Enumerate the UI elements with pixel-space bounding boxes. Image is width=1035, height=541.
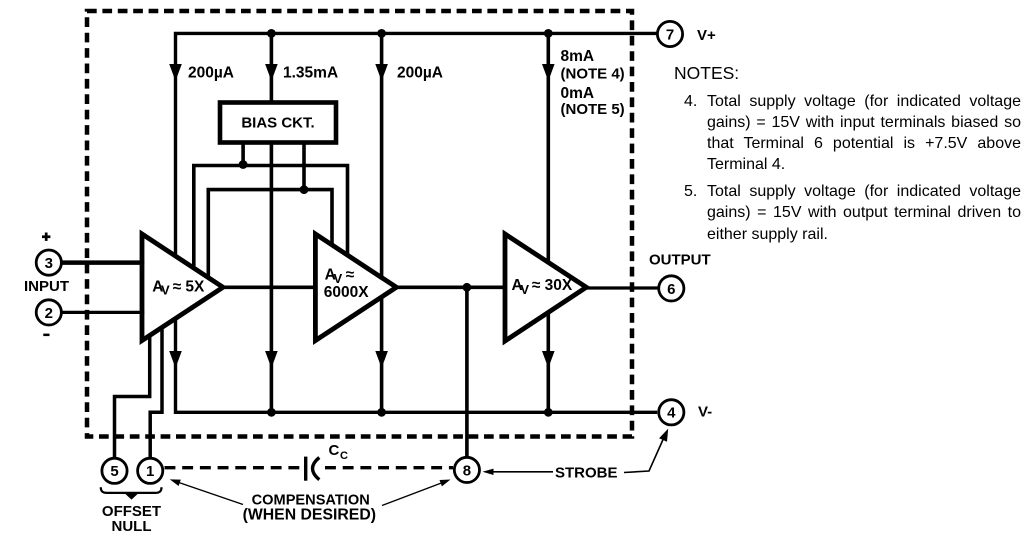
svg-text:NULL: NULL bbox=[112, 518, 152, 535]
wire: second 200uA current line bbox=[380, 33, 384, 412]
label V+ bbox=[697, 27, 716, 44]
wire: bias feedback outer loop to A1 and A2 bbox=[194, 166, 348, 273]
current arrow 1.35mA bottom bbox=[265, 351, 278, 368]
wire: signal A1 output to A2 input bbox=[221, 285, 317, 289]
label STROBE bbox=[555, 465, 618, 482]
op-amp A1 (AV ~ 5X) bbox=[142, 234, 223, 341]
label COMPENSATION (WHEN DESIRED) bbox=[243, 492, 376, 523]
terminal 2 circle bbox=[36, 300, 61, 325]
wire: compensation tap down to terminal 8 bbox=[465, 287, 469, 456]
current arrow 8mA bottom bbox=[542, 351, 555, 368]
wire: signal A2 output to A3 input bbox=[394, 285, 507, 289]
current arrow 8mA top bbox=[542, 64, 555, 81]
svg-text:6: 6 bbox=[667, 281, 675, 298]
label NOTES: bbox=[674, 63, 739, 84]
svg-text:(NOTE 4): (NOTE 4) bbox=[561, 66, 625, 83]
label 0mA (NOTE 5) bbox=[561, 85, 625, 118]
current arrow 200uA #2 bottom bbox=[375, 351, 388, 368]
note 5 text bbox=[707, 181, 1021, 245]
svg-text:200µA: 200µA bbox=[397, 64, 443, 81]
wire: bias box right stub bbox=[302, 143, 306, 190]
label INPUT bbox=[24, 278, 69, 295]
terminal 3 circle bbox=[36, 250, 61, 275]
svg-text:V+: V+ bbox=[697, 27, 716, 44]
svg-text:BIAS CKT.: BIAS CKT. bbox=[241, 114, 314, 131]
wire: compensation dashed link terminal 1 to capacitor bbox=[165, 466, 303, 469]
svg-text:7: 7 bbox=[666, 26, 674, 43]
terminal 8 circle bbox=[454, 457, 479, 482]
junction dot bias stub on outer loop bbox=[239, 160, 248, 169]
terminal 7 circle bbox=[657, 21, 682, 46]
svg-text:AV≈ 5X: AV≈ 5X bbox=[152, 279, 205, 298]
junction dot top rail at 200uA #2 line bbox=[377, 29, 386, 38]
wire: terminal 2 to A1 inverting input bbox=[62, 311, 144, 314]
svg-text:5: 5 bbox=[110, 463, 118, 480]
svg-text:8: 8 bbox=[463, 462, 471, 479]
svg-text:INPUT: INPUT bbox=[24, 278, 69, 295]
svg-text:(NOTE 5): (NOTE 5) bbox=[561, 101, 625, 118]
label 200uA #2 bbox=[397, 64, 443, 81]
junction dot top rail at 1.35mA line bbox=[267, 29, 276, 38]
terminal 5 circle bbox=[102, 458, 127, 483]
wire: bias box left stub bbox=[241, 143, 245, 166]
wire: bias feedback inner loop to A1 and A2 bbox=[208, 190, 332, 281]
wire: compensation dashed link capacitor to terminal 8 bbox=[325, 466, 453, 469]
compensation pointer line to terminal 1 bbox=[170, 479, 243, 504]
offset null under-brace bbox=[101, 487, 162, 499]
minus sign inverting input bbox=[43, 334, 49, 337]
label 200uA #1 bbox=[188, 64, 234, 81]
label OFFSET NULL bbox=[102, 503, 161, 535]
wire: A3 output to terminal 6 bbox=[584, 286, 657, 289]
svg-text:STROBE: STROBE bbox=[555, 465, 618, 482]
note 5 number bbox=[684, 181, 697, 202]
junction dot V- rail at 1.35mA line bbox=[267, 408, 276, 417]
terminal 1 circle bbox=[138, 458, 163, 483]
svg-text:C: C bbox=[340, 450, 348, 462]
label 1.35mA bbox=[283, 64, 338, 81]
wire: 1.35mA bias current line bbox=[270, 33, 274, 412]
svg-text:4: 4 bbox=[667, 405, 676, 422]
terminal 4 circle bbox=[659, 400, 684, 425]
note 4 text bbox=[707, 91, 1021, 176]
capacitor CC curved plate bbox=[313, 458, 320, 480]
svg-text:2: 2 bbox=[45, 305, 53, 322]
current arrow 1.35mA top bbox=[265, 64, 278, 81]
op-amp A2 (AV ~ 6000X) bbox=[315, 234, 396, 341]
svg-text:6000X: 6000X bbox=[324, 284, 369, 301]
note 4 number bbox=[684, 91, 697, 112]
wire: offset-null wire A1 to terminal 1 bbox=[150, 318, 162, 457]
junction dot V- rail at 8mA line bbox=[544, 408, 553, 417]
current arrow 200uA #1 bottom bbox=[169, 351, 182, 368]
label 8mA (NOTE 4) bbox=[561, 48, 625, 83]
junction dot top rail at 8mA line bbox=[544, 29, 553, 38]
compensation pointer line to terminal 8 bbox=[382, 480, 451, 506]
svg-text:1: 1 bbox=[146, 463, 154, 480]
strobe pointer line to terminal 4 bbox=[624, 429, 668, 473]
svg-text:AV≈ 30X: AV≈ 30X bbox=[512, 277, 573, 297]
svg-text:8mA: 8mA bbox=[561, 48, 595, 65]
current arrow 200uA #1 top bbox=[169, 64, 182, 81]
svg-text:0mA: 0mA bbox=[561, 85, 595, 102]
svg-text:OUTPUT: OUTPUT bbox=[649, 252, 711, 269]
wire: terminal 3 to A1 noninverting input bbox=[62, 260, 144, 265]
junction dot signal wire compensation tap bbox=[463, 283, 472, 292]
svg-text:1.35mA: 1.35mA bbox=[283, 64, 338, 81]
label OUTPUT bbox=[649, 252, 711, 269]
svg-text:3: 3 bbox=[45, 255, 53, 272]
svg-text:V-: V- bbox=[698, 403, 712, 420]
svg-text:(WHEN DESIRED): (WHEN DESIRED) bbox=[243, 507, 376, 524]
svg-text:C: C bbox=[329, 442, 340, 459]
current arrow 200uA #2 top bbox=[375, 64, 388, 81]
strobe pointer line to terminal 8 bbox=[483, 469, 554, 475]
wire: 8mA output-stage current line bbox=[546, 33, 550, 412]
label CC bbox=[329, 442, 349, 462]
bias circuit block BIAS CKT. bbox=[220, 103, 336, 143]
svg-text:200µA: 200µA bbox=[188, 64, 234, 81]
wire: V+ top rail, left tail-current drop and V- bottom rail bbox=[176, 33, 658, 412]
junction dot V- rail at 200uA #2 line bbox=[377, 408, 386, 417]
junction dot bias stub on inner loop bbox=[300, 185, 309, 194]
wire: offset-null wire A1 to terminal 5 bbox=[115, 322, 150, 457]
label V- bbox=[698, 403, 712, 420]
capacitor CC flat plate bbox=[304, 457, 307, 481]
terminal 6 circle bbox=[659, 276, 684, 301]
dashed package boundary box bbox=[87, 11, 632, 437]
plus sign noninverting input bbox=[42, 233, 50, 241]
op-amp A3 (AV ~ 30X) bbox=[505, 234, 586, 341]
